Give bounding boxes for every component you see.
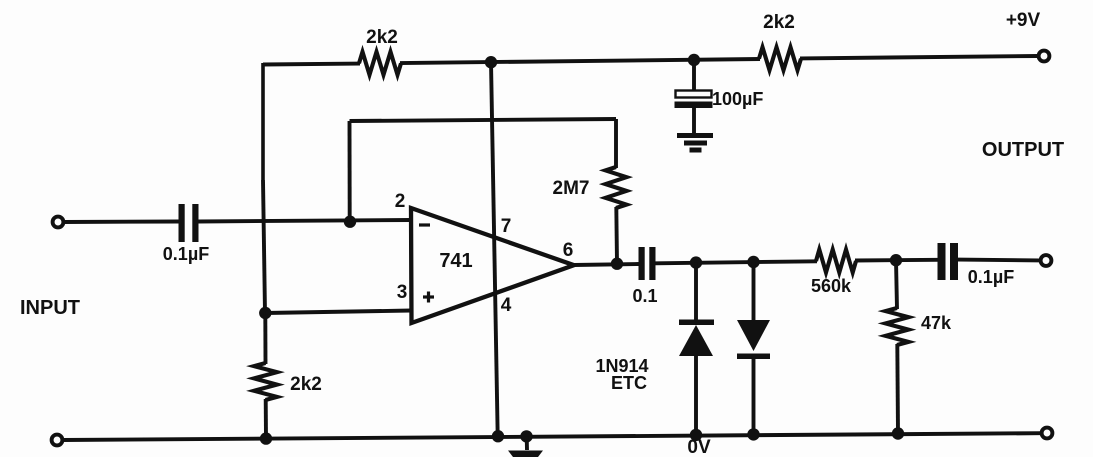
label OUTPUT (982, 139, 1064, 161)
svg-text:100µF: 100µF (712, 89, 763, 109)
node: junction bottom rail / D2 (747, 428, 759, 440)
wire: C1 to op-amp pin 2 (crosses bias line) (199, 220, 412, 222)
terminal output (1041, 255, 1052, 266)
wire: pin 3 row (265, 311, 411, 314)
label C1 value 0.1uF (163, 244, 209, 264)
svg-text:560k: 560k (811, 276, 852, 296)
node: junction feedback / pin 2 wire (344, 216, 356, 228)
terminal input (53, 217, 64, 228)
node: junction output / 2M7 (611, 258, 623, 270)
label C4 value 0.1uF (968, 267, 1014, 287)
label pin 3 (397, 282, 408, 303)
label pin 4 (501, 295, 512, 316)
diode D2 1N914 (pointing down) (737, 262, 770, 434)
wire: C3 to 560k (656, 261, 818, 263)
svg-text:47k: 47k (921, 313, 952, 333)
node: junction bottom rail / D1 (690, 429, 702, 441)
op-amp non-inverting input plus sign (423, 292, 434, 303)
node: junction bottom rail / 47k (892, 427, 904, 439)
resistor R6 47k (886, 308, 909, 345)
label +9V (1006, 10, 1041, 31)
wire: bottom 0V rail (63, 433, 1040, 440)
wire: 47k branch (896, 260, 897, 309)
label INPUT (20, 297, 80, 319)
node: junction top rail / 100uF decoupling (688, 54, 700, 66)
svg-text:0.1µF: 0.1µF (968, 267, 1014, 287)
wire: down to R4 top (614, 119, 618, 168)
wire: pin7/pin4 supply line through op-amp (491, 62, 498, 436)
terminal bottom left (0V input side) (52, 435, 63, 446)
wire: 47k to bottom rail (895, 344, 900, 434)
node: junction D2 top (747, 256, 759, 268)
wire: feedback riser from pin2 node (348, 121, 352, 222)
wire: pin 6 output to C3 (574, 264, 639, 265)
svg-text:INPUT: INPUT (20, 297, 80, 319)
label C2 value 100uF (712, 89, 763, 109)
op-amp U1 741 triangle (411, 208, 574, 323)
node: junction 47k top (890, 254, 902, 266)
wire: C4 to output terminal (958, 258, 1040, 263)
svg-text:7: 7 (501, 216, 512, 237)
svg-text:ETC: ETC (611, 373, 647, 393)
node: junction bias divider / pin 3 (259, 307, 271, 319)
node: junction bottom rail / ground stub (520, 430, 532, 442)
wire: R3 to bottom rail (264, 399, 268, 439)
ground symbol (under 100uF) (677, 133, 713, 153)
svg-text:0.1: 0.1 (632, 286, 657, 306)
label R5 value 560k (811, 276, 852, 296)
svg-text:741: 741 (439, 250, 472, 272)
terminal +9V (1039, 51, 1050, 62)
svg-text:6: 6 (563, 240, 574, 261)
wire: input terminal to C1 (64, 220, 179, 224)
svg-text:2k2: 2k2 (763, 12, 795, 33)
resistor R2 2k2 (supply dropper to +9V) (759, 47, 801, 70)
label C3 value 0.1 (632, 286, 657, 306)
terminal bottom right (0V output side) (1042, 428, 1053, 439)
label pin 6 (563, 240, 574, 261)
resistor R1 2k2 (top feedback/supply rail) (359, 52, 401, 75)
capacitor C1 0.1uF input coupling (179, 204, 199, 242)
label R1 value 2k2 (366, 27, 398, 48)
diode D1 1N914 (pointing up) (679, 263, 714, 435)
svg-text:+9V: +9V (1006, 10, 1041, 31)
label R3 value 2k2 (290, 374, 322, 395)
label U1 741 (439, 250, 472, 272)
label D1/D2 ETC (611, 373, 647, 393)
label pin 2 (395, 191, 406, 212)
op-amp inverting input minus sign (419, 223, 430, 226)
wire: feedback top horizontal to 2M7 (350, 119, 617, 121)
label pin 7 (501, 216, 512, 237)
label 0V (687, 437, 711, 457)
svg-text:2k2: 2k2 (290, 374, 322, 395)
svg-text:2M7: 2M7 (553, 178, 590, 199)
svg-text:2k2: 2k2 (366, 27, 398, 48)
svg-text:0V: 0V (687, 437, 711, 457)
node: junction top rail / pin7 line (485, 56, 497, 68)
svg-text:2: 2 (395, 191, 406, 212)
wire: top rail middle segment (400, 59, 760, 63)
svg-text:4: 4 (501, 295, 512, 316)
node: junction bottom rail / pin 4 line (492, 430, 504, 442)
node: junction D1 top (690, 256, 702, 268)
svg-text:OUTPUT: OUTPUT (982, 139, 1064, 161)
ground symbol (bottom rail) (508, 436, 543, 457)
resistor R4 2M7 (feedback) (606, 167, 627, 208)
resistor R5 560k (816, 250, 856, 273)
label R6 value 47k (921, 313, 952, 333)
svg-text:3: 3 (397, 282, 408, 303)
capacitor C3 0.1 coupling (639, 247, 656, 280)
wire: pin3 node down to R3 (263, 313, 267, 364)
node: junction bottom rail / R3 (260, 432, 272, 444)
label R2 value 2k2 (763, 12, 795, 33)
svg-text:0.1µF: 0.1µF (163, 244, 209, 264)
wire: top rail right segment to +9V terminal (800, 56, 1038, 58)
label D1/D2 1N914 (595, 356, 648, 376)
capacitor C4 0.1uF output coupling (938, 243, 959, 280)
resistor R3 2k2 (bias divider lower) (254, 363, 277, 400)
wire: top supply rail left segment (263, 62, 360, 67)
capacitor C2 100uF (electrolytic decoupling) (675, 60, 713, 133)
label R4 value 2M7 (553, 178, 590, 199)
wire: bias divider vertical (top rail corner down to pin3 node) (263, 63, 265, 313)
wire: 560k to C4 (855, 258, 938, 263)
wire: R4 bottom to output node (614, 207, 619, 264)
